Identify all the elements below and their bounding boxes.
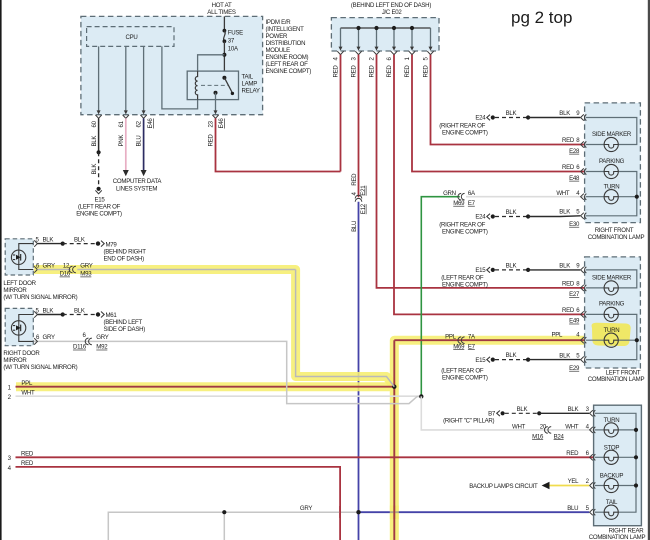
svg-text:E21: E21 <box>360 185 367 196</box>
svg-text:END OF DASH): END OF DASH) <box>104 255 145 262</box>
svg-text:RED: RED <box>208 134 215 147</box>
inline connector E21/E12 <box>351 173 367 232</box>
svg-text:20: 20 <box>540 423 547 430</box>
bulb TAIL (right rear) <box>604 505 618 519</box>
svg-text:BLK: BLK <box>568 406 579 413</box>
left door mirror internal wiring <box>19 244 34 270</box>
svg-text:E15: E15 <box>475 357 486 364</box>
right front lamp internal ground vertical (side marker) <box>586 118 637 145</box>
bulb TURN (right front) <box>604 190 618 204</box>
node fuse output junction <box>222 53 226 57</box>
wire fuse to relay junction <box>223 41 225 77</box>
fuse 37 wire from HOT AT ALL TIMES <box>223 16 225 30</box>
svg-text:FUSE: FUSE <box>228 29 243 36</box>
wire GRY 6 left mirror (highlighted) <box>37 269 71 271</box>
svg-text:pg 2 top: pg 2 top <box>511 8 572 27</box>
ground B7 branch (right rear pin 3) <box>443 406 590 425</box>
svg-text:E48: E48 <box>569 175 580 182</box>
relay switch contact <box>231 92 234 95</box>
svg-text:M69: M69 <box>453 200 465 207</box>
left door mirror turn lamp <box>11 250 25 264</box>
svg-text:MODULE: MODULE <box>266 47 291 54</box>
svg-text:ENGINE COMPT): ENGINE COMPT) <box>442 129 488 136</box>
svg-text:RED: RED <box>404 65 411 78</box>
svg-text:23: 23 <box>208 120 215 127</box>
bulb SIDE MARKER (left front) <box>604 281 618 295</box>
svg-text:LAMP: LAMP <box>242 81 258 88</box>
left front combination lamp box <box>585 257 641 368</box>
svg-text:62: 62 <box>136 120 143 127</box>
relay actuation dashed link <box>201 84 228 86</box>
wire PNK 61 computer data <box>125 118 127 170</box>
inline connector D116/M92 <box>73 334 109 351</box>
wire BLK 60 below IPDM <box>98 118 100 152</box>
wire BLU to right rear tail <box>359 511 590 513</box>
relay switch blade <box>224 78 232 92</box>
wire junction to relay coil top <box>198 55 225 71</box>
svg-text:M16: M16 <box>532 433 544 440</box>
svg-text:(LEFT REAR OF: (LEFT REAR OF <box>78 204 121 211</box>
svg-text:PARKING: PARKING <box>599 158 625 165</box>
svg-text:E46: E46 <box>147 118 154 129</box>
wire RED 1 from J/C to right front parking <box>412 55 584 172</box>
wire BLU vertical to rear <box>358 202 360 540</box>
relay coil <box>195 71 197 100</box>
svg-text:BLK: BLK <box>559 263 570 270</box>
svg-text:RED: RED <box>386 65 393 78</box>
inline connector M16/B24 20 (WHT) <box>512 423 564 440</box>
J/C exit chevrons <box>337 51 433 54</box>
svg-text:PPL: PPL <box>21 380 33 387</box>
svg-text:PARKING: PARKING <box>599 301 625 308</box>
connector M79 (behind right end of dash) <box>96 241 146 263</box>
page left border <box>0 0 2 540</box>
svg-text:(LEFT REAR OF: (LEFT REAR OF <box>441 275 484 282</box>
svg-text:M92: M92 <box>96 344 108 351</box>
right door mirror pin chevrons <box>34 311 37 344</box>
svg-text:MIRROR: MIRROR <box>3 357 27 364</box>
svg-text:BLK: BLK <box>559 209 570 216</box>
left door mirror box <box>5 239 33 275</box>
J/C wire labels <box>333 57 430 78</box>
svg-text:(W/ TURN SIGNAL MIRROR): (W/ TURN SIGNAL MIRROR) <box>3 294 77 301</box>
svg-text:B24: B24 <box>554 433 565 440</box>
svg-text:GRY: GRY <box>80 262 92 269</box>
highlighter blob over left front TURN bulb <box>592 323 631 346</box>
svg-text:E49: E49 <box>569 318 580 325</box>
svg-text:BLK: BLK <box>43 308 54 315</box>
svg-text:ENGINE COMPT): ENGINE COMPT) <box>266 68 312 75</box>
node right mirror BLK splice <box>61 312 65 316</box>
bulb BACKUP (right rear) <box>604 478 618 492</box>
right front combination lamp box <box>585 103 641 223</box>
svg-text:BLK: BLK <box>74 308 85 315</box>
IPDM E/R name text <box>266 19 312 75</box>
wire RED 2 from J/C to left front side marker <box>377 55 585 288</box>
wire GRY left mirror to PPL junction <box>77 269 295 271</box>
svg-text:RED: RED <box>562 164 575 171</box>
svg-text:TURN: TURN <box>604 183 620 190</box>
svg-text:BLK: BLK <box>506 352 517 359</box>
inline connector M69/E7 7A (PPL) <box>445 334 476 351</box>
right rear combination lamp box <box>594 405 642 526</box>
svg-text:(RIGHT REAR OF: (RIGHT REAR OF <box>439 221 485 228</box>
HOT AT ALL TIMES label <box>207 2 236 16</box>
svg-text:(BEHIND LEFT END OF DASH): (BEHIND LEFT END OF DASH) <box>351 2 431 9</box>
svg-text:BLK: BLK <box>43 237 54 244</box>
page right border <box>648 0 650 540</box>
wire RED 6 from J/C to left front parking <box>394 55 584 315</box>
svg-text:37: 37 <box>228 37 235 44</box>
svg-text:(RIGHT REAR OF: (RIGHT REAR OF <box>439 122 485 129</box>
node left mirror BLK splice <box>61 242 65 246</box>
svg-text:D116: D116 <box>73 344 87 351</box>
wire PPL vertical down off page <box>393 340 395 540</box>
right rear lamp internal ground vertical <box>595 413 636 512</box>
svg-text:E29: E29 <box>569 365 580 372</box>
wire BLK 5 left mirror <box>37 243 62 245</box>
J/C drops <box>341 28 431 47</box>
svg-text:M69: M69 <box>453 343 465 350</box>
relay output terminal <box>214 91 218 95</box>
svg-text:(LEFT REAR OF: (LEFT REAR OF <box>441 367 484 374</box>
svg-text:RED: RED <box>333 65 340 78</box>
svg-text:RED: RED <box>566 450 579 457</box>
svg-text:10A: 10A <box>228 45 239 52</box>
node BLU/GRY junction <box>356 510 360 514</box>
svg-text:E15: E15 <box>94 197 105 204</box>
svg-text:GRY: GRY <box>96 334 108 341</box>
right front lamp internal ground vertical (parking/turn) <box>586 172 637 216</box>
wire BLK dashed to E15 <box>98 152 100 187</box>
svg-text:GRY: GRY <box>43 334 55 341</box>
svg-text:LEFT DOOR: LEFT DOOR <box>3 280 36 287</box>
svg-text:E28: E28 <box>569 148 580 155</box>
computer data lines system label <box>113 178 163 192</box>
svg-text:RED: RED <box>351 65 358 78</box>
svg-text:RED: RED <box>423 65 430 78</box>
ground E15 branch (left front pin 9) <box>441 262 580 288</box>
wire RED 3 from J/C to connector E21 <box>358 55 360 198</box>
svg-text:BLK: BLK <box>506 262 517 269</box>
bulb PARKING (left front) <box>604 307 618 321</box>
svg-text:ENGINE COMPT): ENGINE COMPT) <box>442 228 488 235</box>
svg-text:61: 61 <box>118 120 125 127</box>
ground E15 (left rear of engine compt) <box>76 187 122 218</box>
wire relay output to IPDM exit <box>215 93 217 113</box>
svg-text:BLU: BLU <box>567 505 578 512</box>
svg-text:GRY: GRY <box>300 505 312 512</box>
svg-text:RED: RED <box>351 173 358 186</box>
svg-text:ENGINE COMPT): ENGINE COMPT) <box>442 282 488 289</box>
tail lamp relay box <box>187 71 238 100</box>
bulb STOP (right rear) <box>604 450 618 464</box>
svg-text:COMBINATION LAMP: COMBINATION LAMP <box>589 534 646 540</box>
left front lamp pin chevrons <box>581 267 587 363</box>
node PPL junction <box>392 385 396 389</box>
svg-text:BLK: BLK <box>506 209 517 216</box>
svg-text:(BEHIND LEFT: (BEHIND LEFT <box>104 319 143 326</box>
svg-text:STOP: STOP <box>604 444 620 451</box>
svg-text:(LEFT REAR OF: (LEFT REAR OF <box>266 61 309 68</box>
CPU box <box>87 27 174 47</box>
wire CPU output 3 <box>143 46 145 113</box>
svg-text:WHT: WHT <box>565 423 579 430</box>
wire WHT to right front turn <box>466 196 584 198</box>
highlighter marks (yellow) <box>16 270 584 540</box>
svg-text:M79: M79 <box>106 241 118 248</box>
svg-text:60: 60 <box>91 120 98 127</box>
wire BLK 5 right mirror <box>37 314 62 316</box>
svg-text:RELAY: RELAY <box>242 88 260 95</box>
svg-text:TURN: TURN <box>604 327 620 334</box>
svg-text:HOT AT: HOT AT <box>212 2 232 9</box>
svg-text:RED: RED <box>562 307 575 314</box>
svg-text:TAIL: TAIL <box>242 74 254 81</box>
left front lamp internal ground vertical (parking/turn) <box>586 314 637 359</box>
svg-text:E7: E7 <box>468 200 476 207</box>
svg-text:D16: D16 <box>60 271 71 278</box>
svg-text:BLK: BLK <box>74 237 85 244</box>
svg-text:BLU: BLU <box>351 221 358 232</box>
svg-text:RED: RED <box>562 281 575 288</box>
IPDM exit arrows and chevrons <box>97 110 218 114</box>
svg-text:SIDE MARKER: SIDE MARKER <box>592 131 632 138</box>
svg-text:SIDE OF DASH): SIDE OF DASH) <box>104 326 146 333</box>
wire CPU output 1 <box>98 46 100 113</box>
patch red over gray crossing <box>339 506 341 518</box>
svg-text:RED: RED <box>21 450 34 457</box>
svg-text:IPDM E/R: IPDM E/R <box>266 19 292 26</box>
J/C exit arrows <box>339 47 433 51</box>
svg-text:E12: E12 <box>360 203 367 214</box>
wire RED 4 from left edge down off page <box>16 467 341 540</box>
svg-text:RED: RED <box>369 65 376 78</box>
inline connector D16/M93 <box>60 262 93 277</box>
svg-text:BLK: BLK <box>559 352 570 359</box>
wire RED 5 from J/C to right front side marker <box>431 55 585 145</box>
svg-text:COMPUTER DATA: COMPUTER DATA <box>113 178 163 185</box>
wire PPL 1 from left edge <box>16 386 395 388</box>
svg-text:PPL: PPL <box>551 332 563 339</box>
svg-text:BLU: BLU <box>136 135 143 146</box>
left door mirror label <box>3 280 77 301</box>
svg-text:E7: E7 <box>468 343 476 350</box>
svg-text:ENGINE COMPT): ENGINE COMPT) <box>76 211 122 218</box>
wire GRY bottom from off page <box>108 512 358 540</box>
svg-text:BLK: BLK <box>91 136 98 147</box>
svg-text:MIRROR: MIRROR <box>3 287 27 294</box>
wire BLK dashed to M79 <box>63 243 96 245</box>
right door mirror internal wiring <box>19 315 34 342</box>
svg-text:WHT: WHT <box>556 190 570 197</box>
svg-text:GRY: GRY <box>43 262 55 269</box>
right rear lamp feed stubs <box>595 430 604 512</box>
left front lamp internal ground vertical (side marker) <box>586 270 637 288</box>
svg-text:RED: RED <box>21 460 34 467</box>
svg-text:RIGHT DOOR: RIGHT DOOR <box>3 350 40 357</box>
bulb TURN (left front) <box>604 333 618 347</box>
svg-text:WHT: WHT <box>21 390 35 397</box>
J/C E02 bus bar <box>341 27 431 29</box>
svg-text:GRN: GRN <box>443 190 456 197</box>
svg-text:TAIL: TAIL <box>606 499 618 506</box>
svg-text:M61: M61 <box>106 312 118 319</box>
ground E24 branch (right front pin 9) <box>439 110 580 136</box>
svg-text:PPL: PPL <box>445 334 457 341</box>
svg-text:DISTRIBUTION: DISTRIBUTION <box>266 40 306 47</box>
wire PPL highlighted to left front turn <box>394 339 584 341</box>
wire GRY branch down off page <box>223 512 225 540</box>
right rear lamp pin chevrons <box>590 410 596 515</box>
svg-text:COMBINATION LAMP: COMBINATION LAMP <box>588 376 645 383</box>
svg-text:E27: E27 <box>569 291 580 298</box>
svg-text:BACKUP LAMPS CIRCUIT: BACKUP LAMPS CIRCUIT <box>469 483 538 490</box>
svg-text:LINES SYSTEM: LINES SYSTEM <box>116 185 157 192</box>
tail lamp relay label <box>242 74 260 95</box>
bulb TURN (right rear) <box>604 423 618 437</box>
connector M61 (behind left side of dash) <box>96 312 145 334</box>
fuse 37 10A <box>223 29 244 53</box>
wire RED 23 from IPDM <box>216 118 341 171</box>
svg-text:CPU: CPU <box>125 34 137 41</box>
svg-text:(RIGHT "C" PILLAR): (RIGHT "C" PILLAR) <box>443 417 494 424</box>
wire CPU output 2 <box>125 46 127 113</box>
right front lamp pin chevrons <box>581 114 587 218</box>
right door mirror label <box>3 350 77 371</box>
left front lamp feed stubs <box>586 288 604 340</box>
ground E15 branch (left front pin 5) <box>441 352 580 381</box>
svg-text:M93: M93 <box>80 271 92 278</box>
wire RED 4 from J/C to IPDM feed <box>340 55 342 172</box>
wire RED 3 from left edge to right rear stop <box>16 456 594 458</box>
wire YEL 2 backup lamps circuit <box>469 478 589 490</box>
svg-text:WHT: WHT <box>512 423 526 430</box>
svg-text:BLK: BLK <box>506 110 517 117</box>
junction connector J/C E02 box <box>331 2 439 51</box>
svg-text:RED: RED <box>562 137 575 144</box>
svg-text:YEL: YEL <box>568 478 580 485</box>
svg-text:SIDE MARKER: SIDE MARKER <box>592 274 632 281</box>
wire CPU output 4 to relay coil <box>162 46 198 109</box>
ground E24 branch (right front pin 5) <box>439 209 580 236</box>
svg-text:BLK: BLK <box>559 110 570 117</box>
left door mirror pin chevrons <box>34 240 37 272</box>
svg-text:(INTELLIGENT: (INTELLIGENT <box>266 26 305 33</box>
svg-text:COMBINATION LAMP: COMBINATION LAMP <box>588 234 645 241</box>
svg-text:7A: 7A <box>468 334 476 341</box>
wire GRN from turn circuit <box>421 197 460 397</box>
svg-text:E46: E46 <box>218 118 225 129</box>
node GRY branch <box>222 510 226 514</box>
right door mirror box <box>5 308 33 345</box>
svg-text:E15: E15 <box>475 267 486 274</box>
svg-text:BACKUP: BACKUP <box>600 473 624 480</box>
bulb PARKING (right front) <box>604 164 618 178</box>
wire BLU 62 computer data <box>143 118 145 170</box>
right front lamp feed stubs <box>586 145 604 197</box>
node BLK splice <box>97 150 101 154</box>
svg-text:(BEHIND RIGHT: (BEHIND RIGHT <box>104 248 147 255</box>
inline connector M69/E7 6A (GRN-WHT) <box>443 190 476 207</box>
svg-text:ENGINE ROOM): ENGINE ROOM) <box>266 54 309 61</box>
svg-text:BLK: BLK <box>517 406 528 413</box>
bulb SIDE MARKER (right front) <box>604 137 618 151</box>
wire WHT down to right rear turn <box>421 396 593 430</box>
svg-text:J/C E02: J/C E02 <box>382 9 403 16</box>
J/C bus nodes <box>356 26 414 30</box>
svg-text:E30: E30 <box>569 221 580 228</box>
svg-text:POWER: POWER <box>266 33 289 40</box>
wire GRY right door mirror run <box>34 341 421 403</box>
node GRN/WHT junction <box>419 394 423 398</box>
wire BLK dashed to M61 <box>63 314 96 316</box>
IPDM E/R module box <box>81 16 263 114</box>
relay switch pivot <box>222 76 226 80</box>
svg-text:E24: E24 <box>475 214 486 221</box>
patch highlight over blu crossing <box>390 506 399 520</box>
svg-text:PNK: PNK <box>118 135 125 147</box>
svg-text:TURN: TURN <box>604 417 620 424</box>
svg-text:(W/ TURN SIGNAL MIRROR): (W/ TURN SIGNAL MIRROR) <box>3 364 77 371</box>
svg-text:ALL TIMES: ALL TIMES <box>207 9 236 16</box>
svg-text:E24: E24 <box>475 115 486 122</box>
wire WHT 2 from left edge <box>16 395 422 397</box>
svg-text:ENGINE COMPT): ENGINE COMPT) <box>442 374 488 381</box>
svg-text:BLK: BLK <box>91 164 98 175</box>
right door mirror turn lamp <box>11 321 25 335</box>
